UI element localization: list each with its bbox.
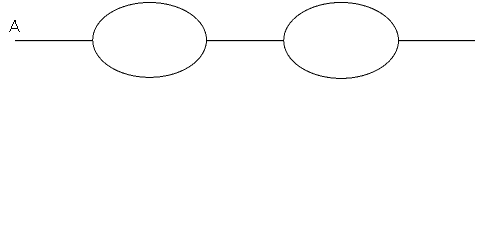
wire (between E1 and E2) (206, 40, 284, 42)
wire (right lead from E2) (398, 40, 475, 42)
ellipse E1 (93, 2, 207, 77)
ellipse E2 (284, 2, 399, 78)
node A (label) (9, 20, 20, 32)
wire (left lead to E1) (15, 40, 93, 42)
